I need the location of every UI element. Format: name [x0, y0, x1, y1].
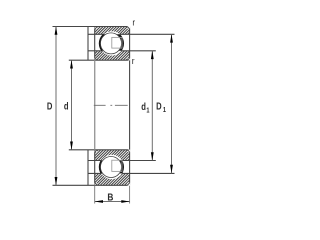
centerline axis — [94, 104, 128, 106]
bore line top (d extension) — [69, 59, 130, 61]
B extension line left — [94, 185, 96, 203]
arrowhead B left — [95, 200, 104, 203]
arrowhead d1 bottom — [151, 152, 154, 161]
bore line bottom (d extension) — [69, 149, 130, 151]
chamfer bore corner top-left — [95, 58, 97, 60]
svg-text:1: 1 — [163, 107, 166, 115]
inner ring bottom section — [95, 150, 130, 161]
svg-text:d: d — [141, 101, 146, 112]
shoulder line bottom (d1 extension) — [88, 160, 156, 162]
svg-text:B: B — [107, 192, 113, 203]
chamfer bore corner top-right — [128, 58, 131, 61]
shoulder line top (d1 extension) — [88, 50, 156, 52]
svg-text:D: D — [47, 100, 53, 111]
B extension line right — [129, 185, 131, 203]
cage square bottom — [112, 160, 122, 171]
svg-text:d: d — [64, 100, 69, 111]
arrowhead D top — [55, 26, 58, 35]
arrowhead D1 bottom — [170, 165, 173, 174]
arrowhead d top — [70, 60, 73, 69]
chamfer top-right OD corner — [127, 26, 130, 29]
left face line top section — [87, 27, 89, 61]
OD line bottom (D extension) — [53, 184, 130, 186]
section boundary line x=94.7 top — [94, 27, 96, 61]
chamfer bore corner bottom-right — [128, 150, 131, 153]
chamfer bore corner bottom-left — [95, 150, 97, 152]
ball top — [101, 33, 122, 54]
arrowhead D bottom — [55, 177, 58, 186]
cage square top — [112, 37, 122, 48]
ball bottom — [101, 157, 122, 178]
svg-text:1: 1 — [146, 107, 149, 115]
svg-text:r: r — [132, 17, 135, 28]
outer ring top section — [95, 27, 130, 35]
OD line top (D extension) — [53, 26, 130, 28]
right face line — [129, 27, 131, 186]
groove opening top — [100, 31, 124, 55]
arrowhead d1 top — [151, 51, 154, 60]
dimension line B — [95, 201, 130, 203]
arrowhead d bottom — [70, 142, 73, 151]
land line top (D1 extension) — [88, 33, 175, 35]
dimension line D1 — [171, 34, 173, 173]
section boundary line x=94.7 bottom — [94, 150, 96, 186]
inner ring top section — [95, 51, 130, 60]
left face line bottom section — [87, 150, 89, 186]
arrowhead D1 top — [170, 34, 173, 43]
bore silhouette line left (middle) — [94, 60, 96, 150]
svg-text:r: r — [132, 56, 135, 67]
land line bottom (D1 extension) — [88, 172, 175, 174]
chamfer top-left OD corner — [95, 27, 98, 29]
dimension line D — [55, 27, 57, 186]
chamfer bottom-right OD corner — [127, 183, 130, 186]
raceway shadow crescents bottom — [99, 154, 124, 179]
dimension line d1 — [151, 51, 153, 161]
raceway shadow crescents top — [99, 31, 124, 56]
chamfer bottom-left OD corner — [95, 183, 98, 185]
arrowhead B right — [121, 200, 130, 203]
outer ring bottom section — [95, 173, 130, 185]
svg-text:D: D — [156, 101, 162, 112]
groove opening bottom — [100, 155, 124, 179]
dimension line d — [71, 60, 73, 150]
